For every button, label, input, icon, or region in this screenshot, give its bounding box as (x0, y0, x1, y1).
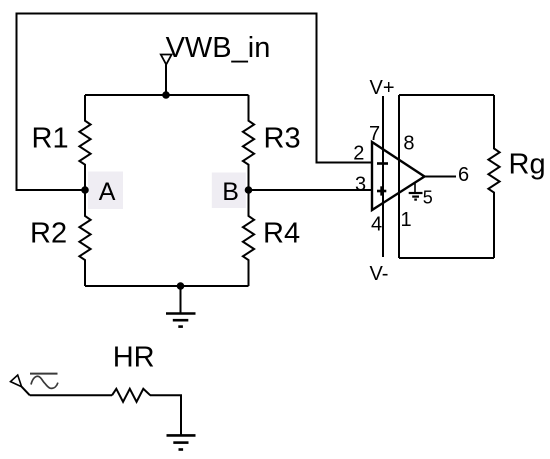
AC sine symbol (31, 376, 58, 388)
wire HR port diagonal (22, 387, 30, 396)
AC overline symbol (30, 373, 58, 375)
ground pin 5 (409, 183, 423, 200)
node A highlight box (88, 172, 123, 210)
svg-text:R1: R1 (32, 123, 69, 155)
wire bridge top (85, 94, 249, 96)
wire bottom loop from Rg to pin 1 (399, 257, 494, 259)
wire HR right (150, 395, 181, 435)
junction dot bridge ground (177, 282, 185, 290)
wire bridge bottom (85, 285, 249, 287)
wire HR left (30, 394, 112, 396)
node A junction dot (81, 186, 89, 194)
resistor HR (112, 389, 150, 402)
wire top loop to Rg (399, 94, 494, 96)
svg-text:R3: R3 (264, 123, 301, 155)
resistor R1 (79, 95, 90, 190)
svg-text:VWB_in: VWB_in (166, 32, 271, 64)
resistor R4 (243, 190, 254, 286)
svg-text:A: A (99, 178, 116, 206)
resistor Rg (488, 95, 499, 258)
wire VWB_in stem (165, 65, 167, 96)
svg-text:3: 3 (355, 174, 366, 196)
svg-text:V-: V- (370, 263, 389, 285)
port HR input triangle (11, 375, 22, 387)
node B junction dot (245, 186, 253, 194)
op-amp U1 triangle (372, 142, 425, 210)
wire V+ to V- vertical (pins 7,4) (382, 96, 384, 257)
port VWB_in triangle (161, 55, 172, 65)
node B highlight box (212, 173, 246, 209)
op-amp plus sign (377, 186, 386, 195)
svg-text:7: 7 (369, 123, 380, 145)
resistor R3 (243, 95, 254, 190)
svg-text:4: 4 (371, 213, 382, 235)
ground HR (167, 435, 196, 449)
svg-text:1: 1 (401, 209, 412, 231)
svg-text:B: B (222, 178, 239, 206)
wire outer loop node A to op-amp pin 2 (17, 14, 373, 191)
resistor R2 (79, 190, 90, 286)
svg-text:HR: HR (113, 341, 155, 373)
wire output pin 6 (425, 176, 457, 178)
svg-text:R2: R2 (30, 218, 67, 250)
ground bridge (166, 286, 196, 327)
svg-text:2: 2 (353, 142, 364, 164)
svg-text:6: 6 (458, 164, 469, 186)
svg-text:5: 5 (423, 188, 433, 208)
wire node B to pin 3 (249, 189, 373, 191)
svg-text:R4: R4 (263, 218, 300, 250)
op-amp minus sign (377, 162, 388, 165)
wire pin 8 to pin 1 vertical (398, 95, 400, 258)
svg-text:8: 8 (403, 132, 414, 154)
svg-text:V+: V+ (370, 77, 395, 99)
junction dot VWB_in (162, 91, 170, 99)
svg-text:Rg: Rg (509, 149, 546, 181)
